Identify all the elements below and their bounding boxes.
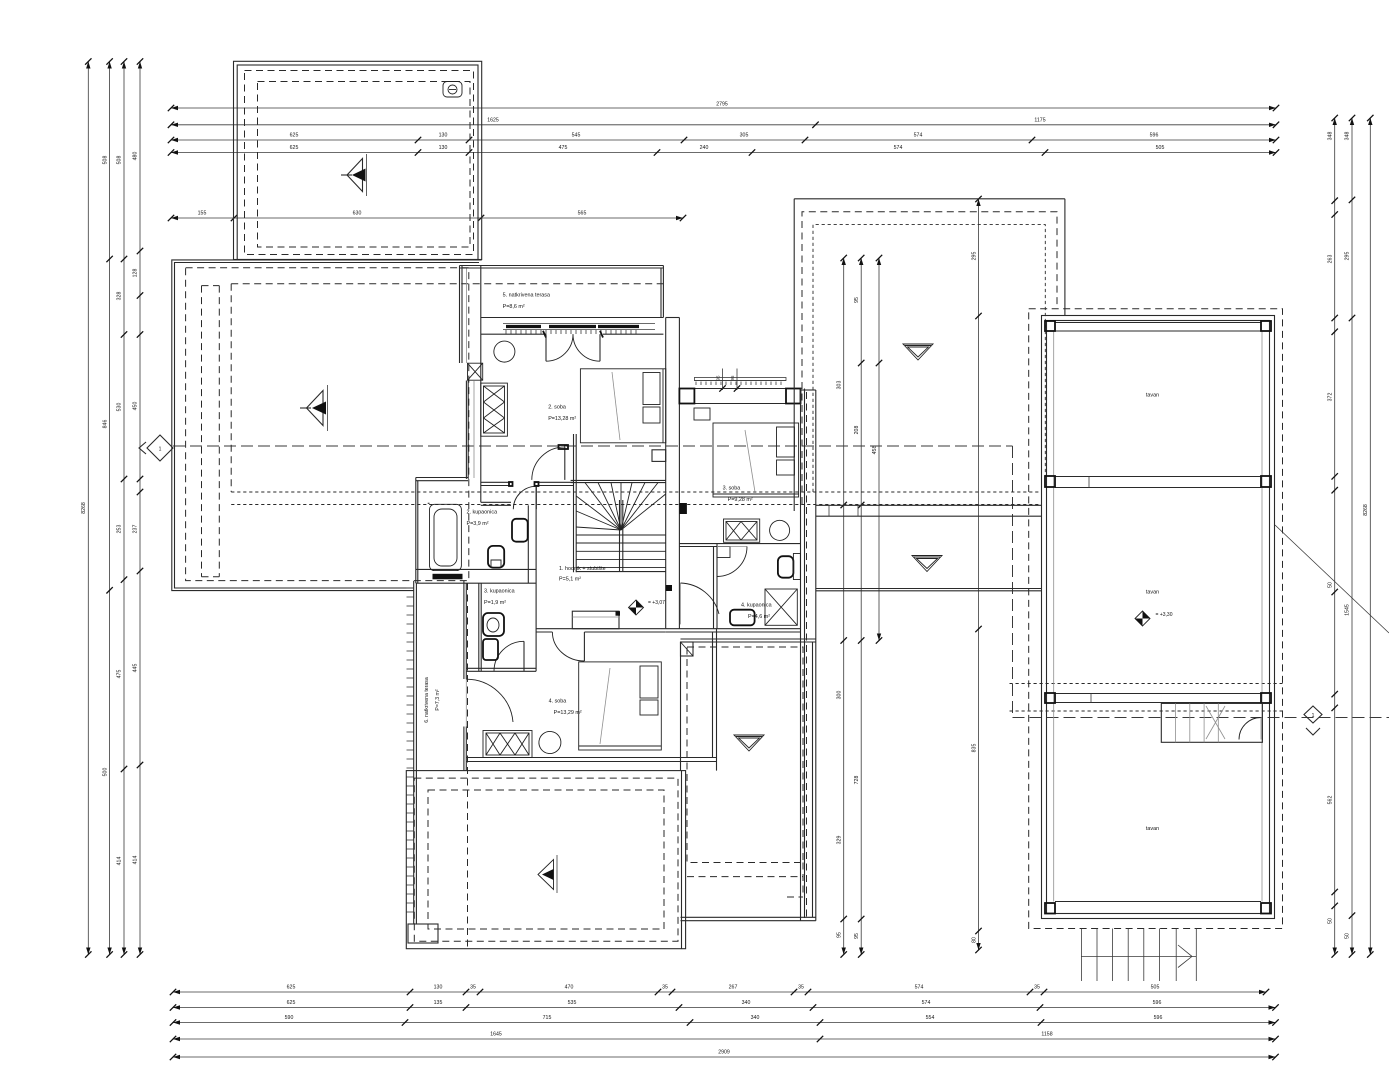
axis corner vertical xyxy=(1012,446,1014,718)
svg-text:1545: 1545 xyxy=(1345,604,1351,616)
dim chain top row1 2795 xyxy=(171,107,1276,109)
svg-text:475: 475 xyxy=(559,145,568,151)
svg-text:4. soba: 4. soba xyxy=(549,699,567,705)
room2 door xyxy=(564,447,566,480)
wc west wall xyxy=(478,583,480,671)
room3 side table xyxy=(694,408,710,420)
svg-text:1645: 1645 xyxy=(490,1032,502,1038)
svg-text:P=3,9 m²: P=3,9 m² xyxy=(467,521,489,527)
room3 radiator xyxy=(724,519,760,542)
svg-text:208: 208 xyxy=(854,426,860,435)
room4 round table xyxy=(537,730,563,756)
terrace8 east wall inner xyxy=(812,642,814,917)
svg-text:253: 253 xyxy=(117,525,123,534)
svg-text:625: 625 xyxy=(287,985,296,991)
svg-text:tavan: tavan xyxy=(1146,826,1159,832)
svg-text:1: 1 xyxy=(159,447,162,453)
dim chain right col3 xyxy=(1369,118,1371,955)
terrace5 window band xyxy=(503,323,655,325)
svg-text:574: 574 xyxy=(894,145,903,151)
room3 window wall north xyxy=(679,388,800,390)
stair fan xyxy=(576,527,621,530)
link wall lower xyxy=(816,588,1042,590)
wall house east main xyxy=(800,389,802,922)
ground floor outline dotted a xyxy=(231,491,1042,493)
svg-text:155: 155 xyxy=(198,211,207,217)
room4 east wall xyxy=(712,632,714,758)
svg-text:P=8,6 m²: P=8,6 m² xyxy=(503,304,525,310)
wall room3 south / bath2 north xyxy=(679,543,800,545)
svg-text:6. natkrivena terasa: 6. natkrivena terasa xyxy=(424,677,430,723)
mid band dashed frame 2 xyxy=(813,225,1045,492)
svg-text:35: 35 xyxy=(798,985,804,991)
svg-text:P=4,6 m²: P=4,6 m² xyxy=(748,614,770,620)
svg-text:P=5,1 m²: P=5,1 m² xyxy=(559,577,581,583)
room3 window band xyxy=(694,378,786,381)
left terrace dashed frame xyxy=(186,268,469,581)
tavan beam band 3 xyxy=(1055,693,1261,695)
room2 door leaf left xyxy=(545,334,547,361)
bath door xyxy=(535,486,537,509)
svg-text:1625: 1625 xyxy=(487,117,499,123)
svg-text:2. kupaonica: 2. kupaonica xyxy=(467,510,498,516)
wall room2 west face xyxy=(480,266,482,503)
room4 radiator xyxy=(483,731,532,758)
bath tub xyxy=(430,504,462,570)
mid band east edge xyxy=(1064,199,1066,315)
svg-text:535: 535 xyxy=(568,1000,577,1006)
dim chain right col2 xyxy=(1351,118,1353,955)
mid band top wall xyxy=(794,198,1065,200)
dim chain left col1 xyxy=(87,62,89,955)
svg-text:329: 329 xyxy=(837,836,843,845)
axis line B horizontal xyxy=(1013,717,1389,719)
stair landing xyxy=(572,611,619,629)
dim chain top row3 xyxy=(171,139,1276,141)
svg-text:545: 545 xyxy=(572,133,581,139)
dim chain right col1 xyxy=(1334,118,1336,955)
axis marker right xyxy=(1304,706,1322,723)
svg-text:596: 596 xyxy=(1150,133,1159,139)
svg-text:340: 340 xyxy=(742,1000,751,1006)
svg-text:135: 135 xyxy=(434,1000,443,1006)
wall hall south / room4 north xyxy=(536,628,666,630)
svg-text:300: 300 xyxy=(837,691,843,700)
wc sink xyxy=(483,639,498,660)
svg-text:tavan: tavan xyxy=(1146,393,1159,399)
svg-text:574: 574 xyxy=(922,1000,931,1006)
roof mark triangle terrace8 xyxy=(734,735,764,751)
terrace7 axis dashed xyxy=(467,583,469,947)
svg-text:835: 835 xyxy=(972,744,978,753)
wall bath2 south xyxy=(666,628,801,630)
axis corner dashed stubs xyxy=(1010,683,1283,685)
svg-text:295: 295 xyxy=(972,252,978,261)
svg-text:445: 445 xyxy=(133,664,139,673)
ground floor outline dashed top xyxy=(231,283,663,285)
terrace7 outer wall xyxy=(406,771,685,949)
porch dashed inner frame 2 xyxy=(258,82,471,248)
svg-text:625: 625 xyxy=(290,133,299,139)
dim chain top row5 xyxy=(171,217,683,219)
dim chain mid col b xyxy=(860,258,862,955)
svg-text:303: 303 xyxy=(837,381,843,390)
tavan external stairs xyxy=(1080,929,1082,982)
svg-text:50: 50 xyxy=(1328,918,1334,924)
svg-text:596: 596 xyxy=(1154,1015,1163,1021)
svg-text:237: 237 xyxy=(133,525,139,534)
svg-text:508: 508 xyxy=(117,156,123,165)
room2 radiator xyxy=(481,383,508,436)
svg-text:35: 35 xyxy=(662,985,668,991)
terrace8 dashed frame xyxy=(687,647,803,863)
svg-text:530: 530 xyxy=(117,403,123,412)
svg-text:728: 728 xyxy=(854,776,860,785)
terrace8 west edge xyxy=(680,642,682,771)
dim chain mid col c xyxy=(878,258,880,641)
axis marker left xyxy=(147,435,173,461)
terrace8 corner box xyxy=(681,642,694,656)
room2 bed xyxy=(580,369,665,443)
tavan mid beam band xyxy=(1055,476,1261,478)
bath2 toilet xyxy=(778,556,794,578)
svg-text:267: 267 xyxy=(729,985,738,991)
svg-text:P=13,29 m²: P=13,29 m² xyxy=(554,710,582,716)
porch corner icon xyxy=(443,82,462,98)
svg-text:414: 414 xyxy=(133,856,139,865)
svg-text:130: 130 xyxy=(439,133,448,139)
house east overhang dashed xyxy=(806,392,808,917)
svg-text:35: 35 xyxy=(1034,985,1040,991)
svg-text:130: 130 xyxy=(439,145,448,151)
svg-text:tavan: tavan xyxy=(1146,590,1159,596)
annex west wall xyxy=(413,581,415,924)
mid band dashed frame 1 xyxy=(802,212,1057,504)
wall terrace5 bottom sill xyxy=(481,317,664,319)
svg-text:130: 130 xyxy=(434,985,443,991)
stair newel xyxy=(652,450,666,462)
room3 door jamb xyxy=(679,503,687,514)
svg-text:8268: 8268 xyxy=(81,502,87,514)
tavan attic door arc xyxy=(1239,718,1261,740)
svg-text:596: 596 xyxy=(1153,1000,1162,1006)
hall level marker xyxy=(629,600,644,615)
svg-text:565: 565 xyxy=(578,211,587,217)
bath2 machine xyxy=(717,547,730,558)
svg-text:505: 505 xyxy=(1151,985,1160,991)
tavan top beam band xyxy=(1055,322,1261,324)
svg-text:1175: 1175 xyxy=(1034,117,1045,123)
ground floor outline dashed left xyxy=(230,284,232,492)
svg-text:450: 450 xyxy=(133,402,139,411)
svg-text:95: 95 xyxy=(854,933,860,939)
room2 wall column box xyxy=(468,363,483,380)
room2 round table xyxy=(492,339,517,364)
dim chain bottom row4 xyxy=(173,1038,1276,1040)
svg-text:5. natkrivena terasa: 5. natkrivena terasa xyxy=(503,293,550,299)
bath sink xyxy=(512,519,528,542)
stair treads xyxy=(576,534,666,536)
svg-text:340: 340 xyxy=(751,1015,760,1021)
stair center rail xyxy=(619,500,621,572)
svg-text:348: 348 xyxy=(1328,132,1334,141)
dim chain left col4 xyxy=(139,62,141,955)
wall west jog y479 xyxy=(416,477,468,479)
svg-text:P=13,28 m²: P=13,28 m² xyxy=(548,416,576,422)
svg-text:50: 50 xyxy=(1345,933,1351,939)
svg-text:475: 475 xyxy=(117,670,123,679)
wc toilet xyxy=(483,613,504,636)
bath toilet xyxy=(488,546,504,568)
tavan outer wall xyxy=(1042,316,1275,919)
wall top terrace5 xyxy=(460,265,664,267)
svg-text:414: 414 xyxy=(117,857,123,866)
room4 bed xyxy=(579,662,662,750)
dim chain left col2 xyxy=(109,62,111,955)
dim chain bottom row2 xyxy=(173,1007,1276,1009)
room4 hall door xyxy=(583,632,585,661)
dim chain top row2 1625/1175 xyxy=(171,124,1276,126)
svg-text:2795: 2795 xyxy=(716,102,728,108)
dim chain mid col a xyxy=(843,258,845,955)
porch north arrow xyxy=(347,159,363,192)
porch dashed inner frame 1 xyxy=(245,71,474,255)
svg-text:480: 480 xyxy=(133,152,139,161)
wall west annex upper xyxy=(415,478,417,584)
annex bottom box xyxy=(408,924,438,943)
dim chain bottom row5 xyxy=(173,1056,1276,1058)
svg-text:128: 128 xyxy=(133,269,139,278)
porch outer wall xyxy=(234,61,482,259)
roof mark triangle top xyxy=(903,344,933,360)
left terrace north arrow xyxy=(307,391,324,426)
bath2 sink xyxy=(730,610,755,626)
terrace8 south wall xyxy=(681,916,816,918)
terrace7 dashed frame b xyxy=(428,790,664,929)
wall stair shaft west x665 xyxy=(665,318,667,629)
wall house west upper xyxy=(459,266,461,364)
svg-text:372: 372 xyxy=(1328,393,1334,402)
terrace7 arrow symbol xyxy=(538,860,554,890)
svg-text:3. soba: 3. soba xyxy=(723,486,741,492)
wc door xyxy=(523,641,525,671)
svg-text:4. kupaonica: 4. kupaonica xyxy=(741,603,772,609)
svg-text:3. kupaonica: 3. kupaonica xyxy=(484,589,515,595)
wall bath east x528-536 xyxy=(527,505,529,583)
dim chain bottom row1 xyxy=(173,991,1266,993)
terrace7 dashed frame a xyxy=(414,778,678,941)
svg-text:2909: 2909 xyxy=(718,1050,730,1056)
svg-text:630: 630 xyxy=(353,211,362,217)
room2 door leaf right xyxy=(599,334,601,361)
tavan bottom beam band xyxy=(1055,901,1261,903)
svg-text:348: 348 xyxy=(1345,132,1351,141)
svg-text:328: 328 xyxy=(117,292,123,301)
svg-text:= +3,30: = +3,30 xyxy=(1156,612,1173,618)
room3 bed xyxy=(713,423,799,497)
roof diagonal line xyxy=(1275,525,1389,633)
svg-text:= +3,07: = +3,07 xyxy=(648,600,665,606)
dim small window pair above room3 xyxy=(722,369,724,391)
terrace8 north wall xyxy=(681,638,816,640)
tavan level marker xyxy=(1135,611,1150,626)
dim chain top row4 xyxy=(171,152,1276,154)
svg-text:50: 50 xyxy=(1328,582,1334,588)
room3 round table xyxy=(767,518,792,543)
tavan inner face lines xyxy=(1053,331,1055,902)
svg-text:P=7,3 m²: P=7,3 m² xyxy=(435,689,441,710)
svg-text:574: 574 xyxy=(915,985,924,991)
dim chain bottom row3 xyxy=(173,1022,1276,1024)
wall stair shaft east x679 xyxy=(678,318,680,629)
roof mark triangle mid xyxy=(912,556,942,572)
room4 south wall xyxy=(466,757,716,759)
house east outer ledge xyxy=(815,390,817,921)
terrace7 east wall double xyxy=(681,771,683,949)
svg-text:590: 590 xyxy=(285,1015,294,1021)
svg-text:240: 240 xyxy=(700,145,709,151)
svg-text:458: 458 xyxy=(872,446,878,455)
hall terrace door xyxy=(680,583,682,624)
bath south wall xyxy=(416,568,536,570)
hall terrace door jamb xyxy=(666,585,672,591)
room4 door west xyxy=(465,679,467,726)
annex hatch marks xyxy=(407,588,414,912)
svg-text:8268: 8268 xyxy=(1363,504,1369,516)
tavan dashed overhang xyxy=(1029,309,1283,929)
bath2 shower xyxy=(765,589,797,625)
svg-text:P=9,28 m²: P=9,28 m² xyxy=(728,497,753,503)
svg-text:508: 508 xyxy=(103,156,109,165)
svg-text:562: 562 xyxy=(1328,796,1334,805)
svg-text:95: 95 xyxy=(854,297,860,303)
dim chain mid col d xyxy=(978,199,980,950)
wall house west below box xyxy=(465,381,467,479)
svg-text:95: 95 xyxy=(837,932,843,938)
left terrace outer wall xyxy=(172,260,482,591)
wc south wall xyxy=(466,667,536,669)
dim chain left col3 xyxy=(123,62,125,955)
svg-text:625: 625 xyxy=(290,145,299,151)
svg-text:574: 574 xyxy=(914,133,923,139)
svg-text:625: 625 xyxy=(287,1000,296,1006)
svg-text:846: 846 xyxy=(103,420,109,429)
wall terrace5 right xyxy=(660,268,662,318)
bath2 door xyxy=(717,546,747,548)
svg-text:80: 80 xyxy=(972,937,978,943)
axis line A horizontal xyxy=(173,445,1013,447)
svg-text:505: 505 xyxy=(1156,145,1165,151)
room2 french door wall xyxy=(481,333,546,335)
east wall top connector xyxy=(801,389,816,391)
svg-text:500: 500 xyxy=(103,768,109,777)
svg-text:554: 554 xyxy=(926,1015,935,1021)
link wall upper xyxy=(816,504,1042,506)
wall bath2 west xyxy=(713,547,715,629)
svg-text:295: 295 xyxy=(1345,252,1351,261)
svg-text:715: 715 xyxy=(543,1015,552,1021)
terrace8 dashed lines bottom xyxy=(687,876,803,878)
svg-text:1. hodnik + stubište: 1. hodnik + stubište xyxy=(559,566,606,572)
stair boundary xyxy=(575,434,577,572)
svg-text:2. soba: 2. soba xyxy=(548,405,566,411)
svg-text:305: 305 xyxy=(740,133,749,139)
left terrace dashed wall axis pair xyxy=(201,286,203,577)
svg-text:1158: 1158 xyxy=(1041,1032,1052,1038)
annex east wall xyxy=(463,581,465,679)
tavan attic stair xyxy=(1161,703,1262,742)
svg-text:P=1,9 m²: P=1,9 m² xyxy=(484,600,506,606)
svg-text:35: 35 xyxy=(470,985,476,991)
svg-text:1: 1 xyxy=(1312,713,1315,719)
mid band west edge xyxy=(793,199,795,511)
svg-text:470: 470 xyxy=(565,985,574,991)
svg-text:263: 263 xyxy=(1328,255,1334,264)
bath north wall xyxy=(481,501,511,503)
ground floor outline dotted b xyxy=(231,504,1042,506)
wall hall over-beam xyxy=(481,481,509,483)
